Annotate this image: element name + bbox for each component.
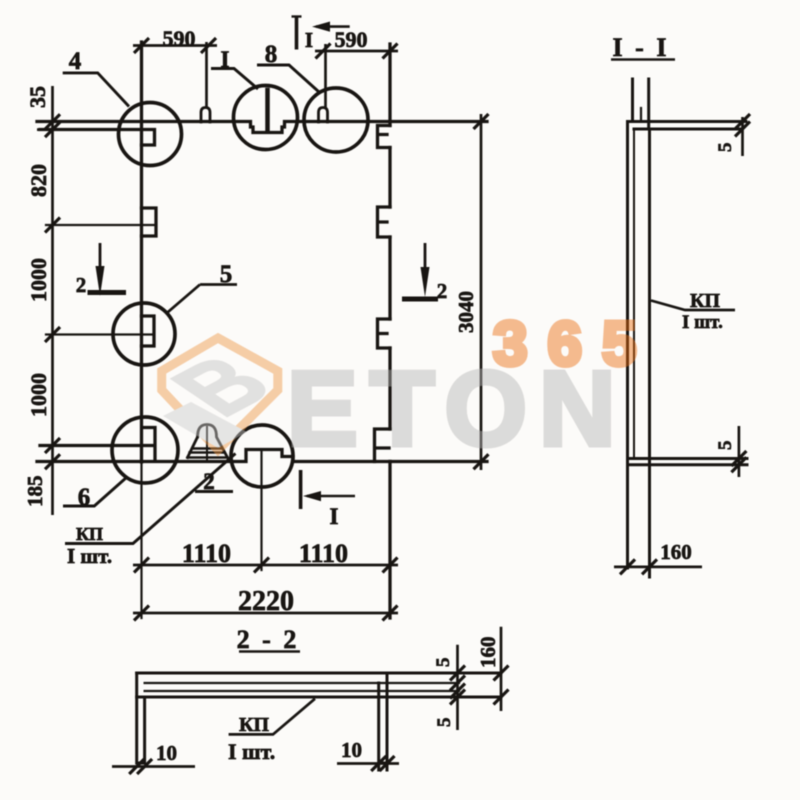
2-2 dim 10 right bbox=[337, 762, 399, 765]
svg-text:5: 5 bbox=[433, 658, 454, 668]
dimension 590 left bbox=[133, 42, 217, 108]
svg-text:365: 365 bbox=[493, 310, 656, 379]
flag I at top with leader bbox=[211, 69, 258, 90]
svg-text:6: 6 bbox=[78, 484, 91, 511]
section cut 2 left arrow bbox=[88, 243, 127, 296]
I-I dim 5 top bbox=[741, 117, 744, 156]
section cut I bottom bbox=[301, 470, 355, 509]
I-I dim 5 bottom bbox=[738, 426, 741, 477]
I-I bottom flange bbox=[628, 457, 748, 460]
section I-I profile bbox=[628, 79, 748, 577]
plan: right edge keyway 2 bbox=[378, 207, 391, 237]
plan: keyway extension line 1000/1000 bbox=[46, 333, 154, 335]
svg-text:4: 4 bbox=[69, 48, 82, 75]
plan: panel left edge bbox=[140, 42, 143, 462]
plan: bottom-left corner step in circle 6 bbox=[143, 428, 156, 461]
svg-text:3040: 3040 bbox=[454, 291, 478, 333]
svg-text:185: 185 bbox=[23, 476, 47, 508]
svg-text:I - I: I - I bbox=[613, 33, 670, 62]
svg-text:1000: 1000 bbox=[26, 373, 51, 417]
plan: bottom edge extension to 3040 dim bbox=[390, 460, 487, 463]
dimension 3040 right bbox=[480, 114, 483, 470]
watermark logo hexagon bbox=[150, 338, 294, 450]
svg-text:I: I bbox=[221, 47, 230, 72]
2-2 right leg bbox=[379, 673, 387, 770]
svg-text:5: 5 bbox=[715, 441, 736, 451]
2-2 KP plate lines bbox=[145, 682, 459, 684]
detail circle top-middle anchor bbox=[234, 86, 298, 150]
section cut I top-right bbox=[292, 17, 350, 50]
svg-text:I: I bbox=[330, 504, 339, 529]
I-I right edge bbox=[648, 131, 651, 577]
svg-text:I шт.: I шт. bbox=[228, 739, 275, 764]
label 4 with leader bbox=[63, 73, 129, 107]
I-I left edge bbox=[626, 122, 629, 569]
plan: right edge keyway 1 bbox=[378, 126, 391, 148]
plan: left edge keyway in circle 5 bbox=[142, 316, 155, 346]
svg-text:10: 10 bbox=[156, 741, 177, 765]
svg-text:2: 2 bbox=[76, 273, 87, 297]
KP label with leader (plan) bbox=[65, 454, 236, 544]
plan: left edge keyway upper bbox=[142, 208, 157, 236]
label 2 with shelf (bottom cut) bbox=[195, 490, 233, 493]
2-2 left leg bbox=[137, 673, 145, 763]
svg-text:I шт.: I шт. bbox=[682, 312, 723, 333]
plan: panel bottom edge with anchor recess bbox=[37, 450, 390, 462]
I-I top flange bbox=[628, 120, 747, 123]
I-I dim 160 bbox=[614, 566, 702, 569]
recess centerline to 1110 dim bbox=[260, 450, 262, 571]
plan: keyway extension line 820/1000 bbox=[46, 224, 156, 226]
svg-text:КП: КП bbox=[690, 290, 721, 312]
left dimension column bbox=[37, 86, 62, 515]
svg-text:1110: 1110 bbox=[182, 539, 231, 568]
svg-text:160: 160 bbox=[476, 637, 500, 669]
watermark logo shadow slab bbox=[163, 402, 247, 448]
2-2 dim 160 bbox=[500, 627, 503, 711]
svg-text:2: 2 bbox=[203, 469, 215, 494]
2-2 dim 5/5 bbox=[456, 645, 459, 730]
plan: left edge lower extension bbox=[140, 462, 142, 618]
svg-text:2 - 2: 2 - 2 bbox=[237, 625, 300, 654]
svg-text:160: 160 bbox=[660, 540, 692, 564]
svg-text:I: I bbox=[305, 28, 313, 52]
svg-text:5: 5 bbox=[715, 143, 736, 153]
2-2 top line bbox=[137, 672, 501, 675]
label 5 with leader bbox=[168, 285, 237, 313]
plan: panel top edge with anchor recess bbox=[37, 122, 390, 133]
I-I KP label with leader bbox=[651, 301, 735, 311]
lifting loop in circle 8 bbox=[319, 108, 328, 123]
2-2 bottom line bbox=[137, 696, 501, 699]
detail circle 8 top-right bbox=[304, 88, 368, 152]
svg-text:2: 2 bbox=[437, 279, 448, 303]
svg-text:5: 5 bbox=[434, 718, 455, 728]
svg-text:КП: КП bbox=[76, 524, 103, 544]
svg-text:5: 5 bbox=[220, 261, 233, 288]
plan: top edge extension to 3040 dim bbox=[390, 120, 487, 123]
lifting loop anchor (bell) at bottom edge bbox=[188, 425, 228, 458]
svg-text:590: 590 bbox=[163, 26, 196, 51]
svg-text:1000: 1000 bbox=[26, 258, 51, 302]
svg-text:2220: 2220 bbox=[238, 586, 294, 617]
label 8 with leader bbox=[257, 65, 319, 92]
anchor pin in top-middle circle bbox=[265, 90, 270, 132]
svg-text:1110: 1110 bbox=[299, 539, 348, 568]
plan: panel right edge bbox=[388, 44, 391, 618]
detail circle 5 mid-left bbox=[113, 303, 175, 365]
dimension 2220 bbox=[133, 612, 398, 615]
plan: right edge keyway 4 (corner) bbox=[375, 429, 391, 462]
svg-text:8: 8 bbox=[265, 41, 278, 68]
section cut 2 right arrow bbox=[402, 243, 438, 299]
2-2 KP label with leader bbox=[229, 699, 315, 735]
detail circle 2 bottom-middle bbox=[231, 425, 293, 487]
dimension 1110 pair bbox=[133, 564, 398, 567]
detail circle 4 top-left bbox=[119, 103, 182, 166]
svg-text:35: 35 bbox=[25, 86, 50, 108]
I-I anchor rods above top bbox=[631, 79, 634, 122]
dimension 590 right bbox=[315, 44, 398, 108]
plan: top-left corner rebate line bbox=[40, 130, 155, 146]
plan: bottom-left corner rebate line bbox=[40, 444, 152, 447]
plan: right edge keyway 3 bbox=[378, 319, 391, 348]
label 6 with leader bbox=[63, 477, 127, 506]
svg-text:590: 590 bbox=[335, 27, 368, 52]
svg-text:10: 10 bbox=[341, 738, 362, 762]
lifting loop on top edge at 590 bbox=[201, 108, 210, 123]
detail circle 6 bottom-left bbox=[112, 417, 178, 483]
2-2 dim 10 left bbox=[112, 765, 195, 768]
svg-text:I шт.: I шт. bbox=[67, 544, 112, 568]
svg-text:КП: КП bbox=[239, 714, 270, 736]
svg-text:820: 820 bbox=[26, 164, 51, 197]
I-I KP plate line bbox=[633, 129, 635, 458]
section 2-2 profile bbox=[137, 673, 501, 770]
